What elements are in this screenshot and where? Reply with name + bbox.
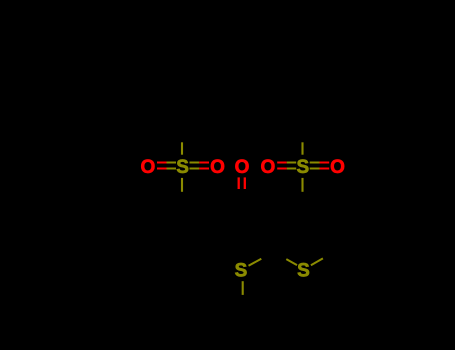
svg-text:S: S [235,261,248,282]
svg-text:S: S [297,157,310,178]
svg-text:O: O [330,157,345,178]
svg-text:O: O [235,157,250,178]
svg-text:O: O [261,157,276,178]
svg-text:O: O [141,157,156,178]
svg-text:S: S [297,261,310,282]
svg-text:O: O [210,157,225,178]
svg-text:S: S [176,157,189,178]
